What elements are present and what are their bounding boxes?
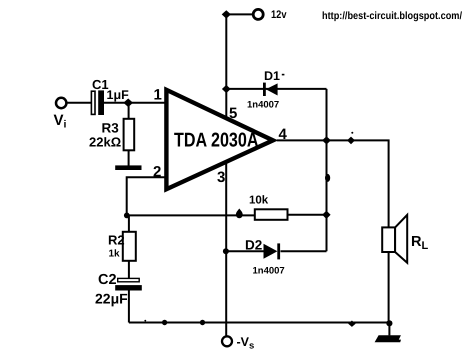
svg-text:R2: R2 — [108, 233, 125, 248]
svg-text:22μF: 22μF — [95, 291, 128, 307]
svg-text:http://best-circuit.blogspot.c: http://best-circuit.blogspot.com/ — [322, 10, 462, 22]
svg-text:1: 1 — [154, 87, 162, 104]
svg-text:2: 2 — [153, 163, 161, 180]
svg-text:Vi: Vi — [54, 112, 67, 131]
svg-text:RL: RL — [411, 234, 428, 252]
svg-text:1k: 1k — [109, 249, 121, 260]
svg-text:4: 4 — [279, 126, 288, 143]
svg-text:D1: D1 — [264, 69, 280, 83]
svg-text:R3: R3 — [102, 121, 120, 136]
svg-text:10k: 10k — [249, 195, 269, 207]
svg-text:-Vs: -Vs — [237, 335, 255, 352]
svg-text:3: 3 — [217, 169, 225, 186]
svg-text:5: 5 — [229, 105, 237, 122]
svg-text:1n4007: 1n4007 — [253, 266, 285, 277]
svg-text:1μF: 1μF — [107, 88, 130, 102]
svg-text:12v: 12v — [271, 9, 287, 21]
svg-text:TDA 2030A: TDA 2030A — [174, 130, 259, 152]
svg-text:22kΩ: 22kΩ — [89, 135, 121, 150]
svg-text:D2: D2 — [245, 238, 262, 253]
svg-text:1n4007: 1n4007 — [247, 100, 279, 111]
svg-text:C2: C2 — [98, 272, 117, 288]
